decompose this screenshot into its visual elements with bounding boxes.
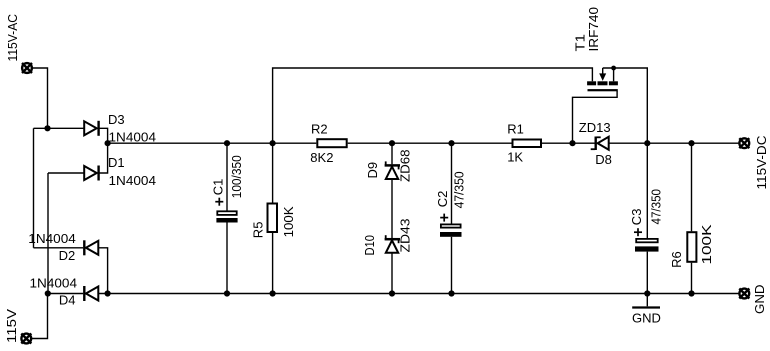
junction node bridge positive (105, 140, 111, 146)
svg-text:D4: D4 (59, 292, 76, 307)
svg-text:47/350: 47/350 (648, 189, 663, 225)
diode D1 (84, 166, 98, 181)
wire R5 bottom (272, 233, 274, 294)
wire AC1 to D3 anode node (32, 68, 47, 128)
terminal AC2 115V pad (21, 334, 31, 344)
junction R6 bottom (688, 290, 694, 296)
svg-text:C1: C1 (210, 179, 225, 196)
wire between D9 and D10 (391, 179, 393, 238)
wire D3 cathode to node (99, 128, 108, 143)
wire zener branch top (391, 143, 393, 164)
wire AC1 branch down to D2 (33, 128, 35, 248)
svg-text:ZD13: ZD13 (579, 120, 611, 135)
wire D1 cathode to node (99, 143, 108, 173)
wire D2 anode to node (98, 248, 107, 294)
zener diode D9 (385, 161, 400, 179)
wire C2 top (451, 143, 453, 223)
capacitor C3 (635, 239, 659, 252)
wire C1 top (226, 143, 228, 210)
wire R1 to ZD13 (542, 142, 595, 144)
svg-text:R5: R5 (250, 222, 265, 239)
capacitor C2 (440, 224, 462, 236)
svg-text:1N4004: 1N4004 (30, 275, 78, 290)
svg-text:100/350: 100/350 (229, 155, 244, 198)
junction C2 bottom (448, 290, 454, 296)
zener diode ZD13 D8 (591, 137, 609, 151)
wire T1 gate to gate node (573, 91, 618, 143)
svg-text:1N4004: 1N4004 (28, 231, 76, 246)
svg-text:D10: D10 (362, 235, 377, 256)
zener diode D10 (385, 235, 400, 253)
wire C3 top (646, 143, 648, 238)
junction zener branch top (389, 140, 395, 146)
wire AC2 to D4 node (32, 294, 48, 339)
resistor R5 (268, 204, 278, 233)
wire R2 to R1 rail section (348, 142, 512, 144)
svg-text:R2: R2 (311, 122, 328, 137)
wire D4 cathode line (48, 293, 83, 295)
svg-text:D2: D2 (59, 248, 76, 263)
junction R6 top (688, 140, 694, 146)
svg-text:ZD43: ZD43 (397, 219, 412, 253)
svg-text:D3: D3 (108, 112, 125, 127)
svg-text:C2: C2 (435, 191, 450, 208)
junction D4 cathode / AC2 / D1 (45, 290, 51, 296)
junction C3 bottom (644, 290, 650, 296)
svg-text:47/350: 47/350 (451, 171, 466, 208)
wire D1 branch down to D4 node (47, 173, 49, 294)
svg-text:100K: 100K (281, 206, 296, 237)
wire drain riser from positive rail over top (273, 68, 593, 143)
wire D2 cathode line (34, 247, 84, 249)
svg-text:115V: 115V (4, 309, 19, 343)
wire bottom ground rail (98, 293, 739, 295)
wire R6 bottom (691, 263, 693, 294)
junction node bridge negative (105, 290, 111, 296)
svg-text:1N4004: 1N4004 (109, 173, 157, 188)
terminal DC+ 115V-DC pad (739, 138, 749, 148)
terminal GND pad (739, 289, 749, 299)
wire T1 source to output node (603, 68, 648, 143)
svg-text:D1: D1 (108, 155, 125, 170)
transistor T1 MOSFET IRF740 (587, 68, 618, 91)
svg-text:GND: GND (632, 311, 661, 326)
label + (C3 polarity) (634, 228, 642, 236)
label + (C2 polarity) (440, 214, 448, 222)
junction zener branch bottom (389, 290, 395, 296)
svg-text:1K: 1K (507, 150, 523, 165)
diode D2 (84, 240, 98, 255)
svg-text:115V-AC: 115V-AC (5, 14, 20, 62)
diode D4 (84, 286, 98, 301)
junction C2 top (448, 140, 454, 146)
resistor R2 (317, 139, 346, 147)
resistor R6 (687, 232, 696, 262)
svg-text:D9: D9 (365, 162, 380, 179)
svg-text:R6: R6 (669, 251, 684, 268)
wire positive rail left section (108, 142, 317, 144)
svg-text:GND: GND (752, 285, 767, 315)
ground GND net label (632, 294, 660, 308)
junction C1 top (224, 140, 230, 146)
wire zener branch bottom (391, 253, 393, 294)
svg-text:C3: C3 (629, 209, 644, 226)
svg-text:D8: D8 (595, 152, 612, 167)
capacitor C1 (216, 211, 237, 222)
label + (C1 polarity) (215, 198, 223, 206)
wire R5 top (272, 143, 274, 202)
wire D1 anode line (48, 172, 84, 174)
svg-text:IRF740: IRF740 (586, 7, 601, 52)
wire C3 bottom (646, 252, 648, 294)
junction on D3 anode line (44, 125, 50, 131)
resistor R1 (513, 140, 542, 148)
svg-text:8K2: 8K2 (310, 150, 333, 165)
wire D3 anode line (34, 127, 85, 129)
wire C1 bottom (226, 222, 228, 293)
svg-text:ZD68: ZD68 (397, 150, 412, 183)
svg-text:1N4004: 1N4004 (109, 129, 157, 144)
terminal AC1 115V-AC pad (22, 63, 32, 73)
svg-text:R1: R1 (507, 121, 524, 136)
junction T1 source (611, 66, 616, 71)
svg-text:115V-DC: 115V-DC (754, 136, 769, 190)
junction C1 bottom (224, 290, 230, 296)
junction R5 bottom (270, 290, 276, 296)
junction R5 top (270, 140, 276, 146)
diode D3 (84, 121, 98, 136)
junction output node (644, 140, 650, 146)
wire R6 top (691, 143, 693, 231)
wire ZD13 to output node (609, 142, 740, 144)
svg-text:100K: 100K (699, 224, 714, 264)
junction gate node (569, 140, 575, 146)
wire C2 bottom (451, 237, 453, 294)
